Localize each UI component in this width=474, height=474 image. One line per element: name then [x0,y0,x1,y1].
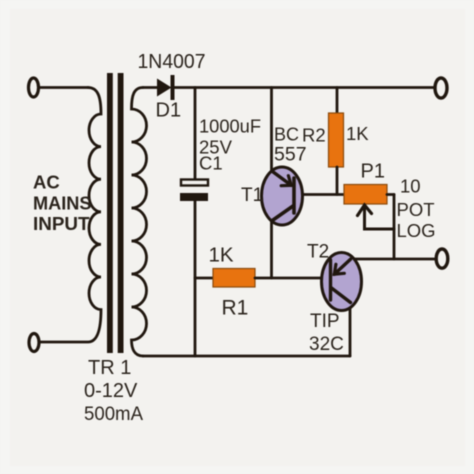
label AC MAINS INPUT [33,172,92,235]
svg-text:R1: R1 [222,297,249,320]
transistor T1 BC557 [262,167,303,225]
wire diode to terminal top-right [175,86,436,89]
wire T2 collector vertical [349,308,352,356]
svg-text:1K: 1K [209,244,234,267]
transformer TR1 secondary winding [132,88,147,357]
terminal top-right [435,78,447,98]
svg-text:1N4007: 1N4007 [138,51,206,73]
wire R2 bottom vertical [336,167,339,195]
svg-text:POT: POT [397,199,435,220]
wire to R1 left [195,277,213,280]
svg-text:MAINS: MAINS [33,193,92,214]
svg-text:1K: 1K [346,123,369,144]
svg-text:D1: D1 [156,100,182,122]
wire secondary top to diode [143,86,158,89]
svg-text:LOG: LOG [397,220,436,241]
resistor R1 [213,269,255,288]
svg-text:INPUT: INPUT [33,213,90,234]
svg-text:C1: C1 [199,153,223,174]
wire C1 bottom vertical [194,201,197,356]
wire P1 right [387,193,394,196]
wire C1 branch vertical top [194,88,197,180]
svg-text:10: 10 [400,176,421,197]
svg-text:T2: T2 [307,242,329,263]
svg-text:500mA: 500mA [84,403,143,425]
terminal top-left [29,78,39,97]
wire P1 right vertical down [393,195,396,260]
diode D1 [157,75,175,100]
svg-text:AC: AC [33,172,60,193]
transistor T2 TIP32C [322,253,362,311]
capacitor C1 [180,180,208,202]
wire T1 base to R2/P1 node [303,193,345,196]
potentiometer P1 body [344,185,387,205]
svg-text:R2: R2 [302,125,326,146]
svg-text:P1: P1 [361,161,385,183]
wire T1 collector vertical [270,221,273,278]
terminal bottom-left [29,334,39,352]
svg-text:32C: 32C [309,334,344,355]
svg-text:TIP: TIP [310,311,340,332]
bottom wire [143,355,350,358]
potentiometer P1 wiper arrow [358,205,395,229]
svg-text:0-12V: 0-12V [84,380,138,402]
svg-text:TR 1: TR 1 [88,357,131,379]
svg-text:T1: T1 [241,185,263,206]
wire T2 emitter to terminal mid-right [353,258,436,261]
transformer core [107,73,124,353]
wire T1 emitter vertical [270,88,273,171]
svg-text:BC: BC [274,125,299,145]
svg-text:557: 557 [274,144,307,166]
resistor R2 [329,113,344,167]
wire top-left to transformer [39,86,89,89]
wire R2 top vertical [336,88,339,114]
wire R1 right to T2 base [255,277,323,280]
svg-text:1000uF: 1000uF [199,116,261,137]
terminal mid-right [436,249,448,268]
transformer TR1 primary winding [39,88,101,343]
